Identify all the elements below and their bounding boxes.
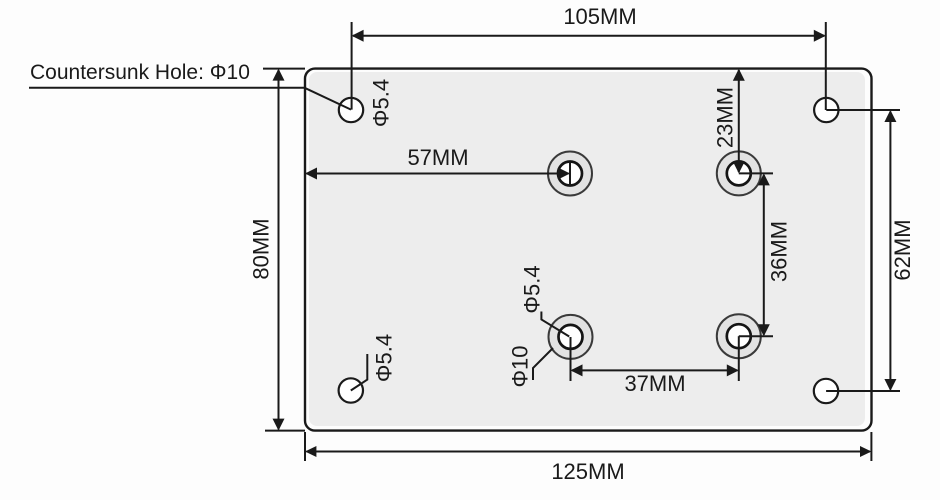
svg-text:125MM: 125MM [551,459,624,484]
dimension 80MM [263,69,305,431]
svg-text:105MM: 105MM [563,4,636,29]
svg-text:80MM: 80MM [249,218,274,279]
countersunk hole right-top (Phi 10 / Phi 5.4) [717,151,761,195]
svg-text:Countersunk Hole: Φ10: Countersunk Hole: Φ10 [30,61,250,84]
svg-text:37MM: 37MM [624,371,685,396]
svg-text:Φ10: Φ10 [508,345,533,387]
dimension 62MM [826,110,900,391]
plate outline [305,69,872,431]
hole bottom-right corner (Phi 5.4) [814,379,838,403]
dimension 37MM [571,336,739,381]
svg-text:Φ5.4: Φ5.4 [369,79,394,127]
plate fill [309,72,865,426]
svg-text:57MM: 57MM [407,145,468,170]
dimension 57MM [306,162,570,186]
countersunk hole bottom-right (Phi 10 / Phi 5.4) [717,314,761,358]
dimension 105MM [352,22,826,110]
svg-text:Φ5.4: Φ5.4 [372,334,397,382]
svg-text:62MM: 62MM [890,219,915,280]
hole top-right corner (Phi 5.4) [814,98,838,122]
hole top-left corner (Phi 5.4) [339,98,363,122]
svg-text:Φ5.4: Φ5.4 [520,265,545,313]
countersunk hole center-top (Phi 10 / Phi 5.4) [548,152,592,196]
dimension 23MM [738,70,740,172]
dimension 36MM [739,173,773,336]
svg-text:36MM: 36MM [767,221,792,282]
dimension 125MM [305,432,871,461]
countersunk hole bottom-center (Phi 10 / Phi 5.4) [549,315,593,359]
svg-text:23MM: 23MM [713,87,738,148]
hole bottom-left corner (Phi 5.4) [339,378,363,402]
